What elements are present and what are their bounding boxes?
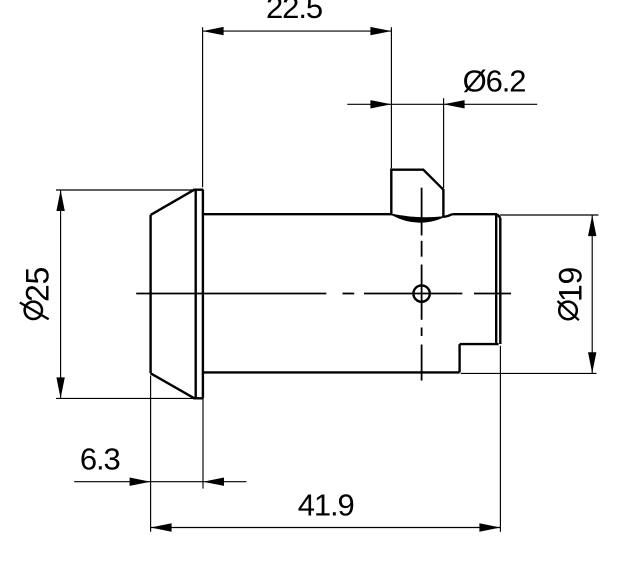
svg-text:22.5: 22.5	[266, 0, 322, 25]
svg-text:41.9: 41.9	[298, 488, 354, 523]
svg-text:19: 19	[552, 267, 588, 302]
svg-text:Ø6.2: Ø6.2	[463, 64, 526, 99]
svg-text:6.3: 6.3	[80, 442, 120, 477]
svg-text:25: 25	[20, 267, 56, 302]
